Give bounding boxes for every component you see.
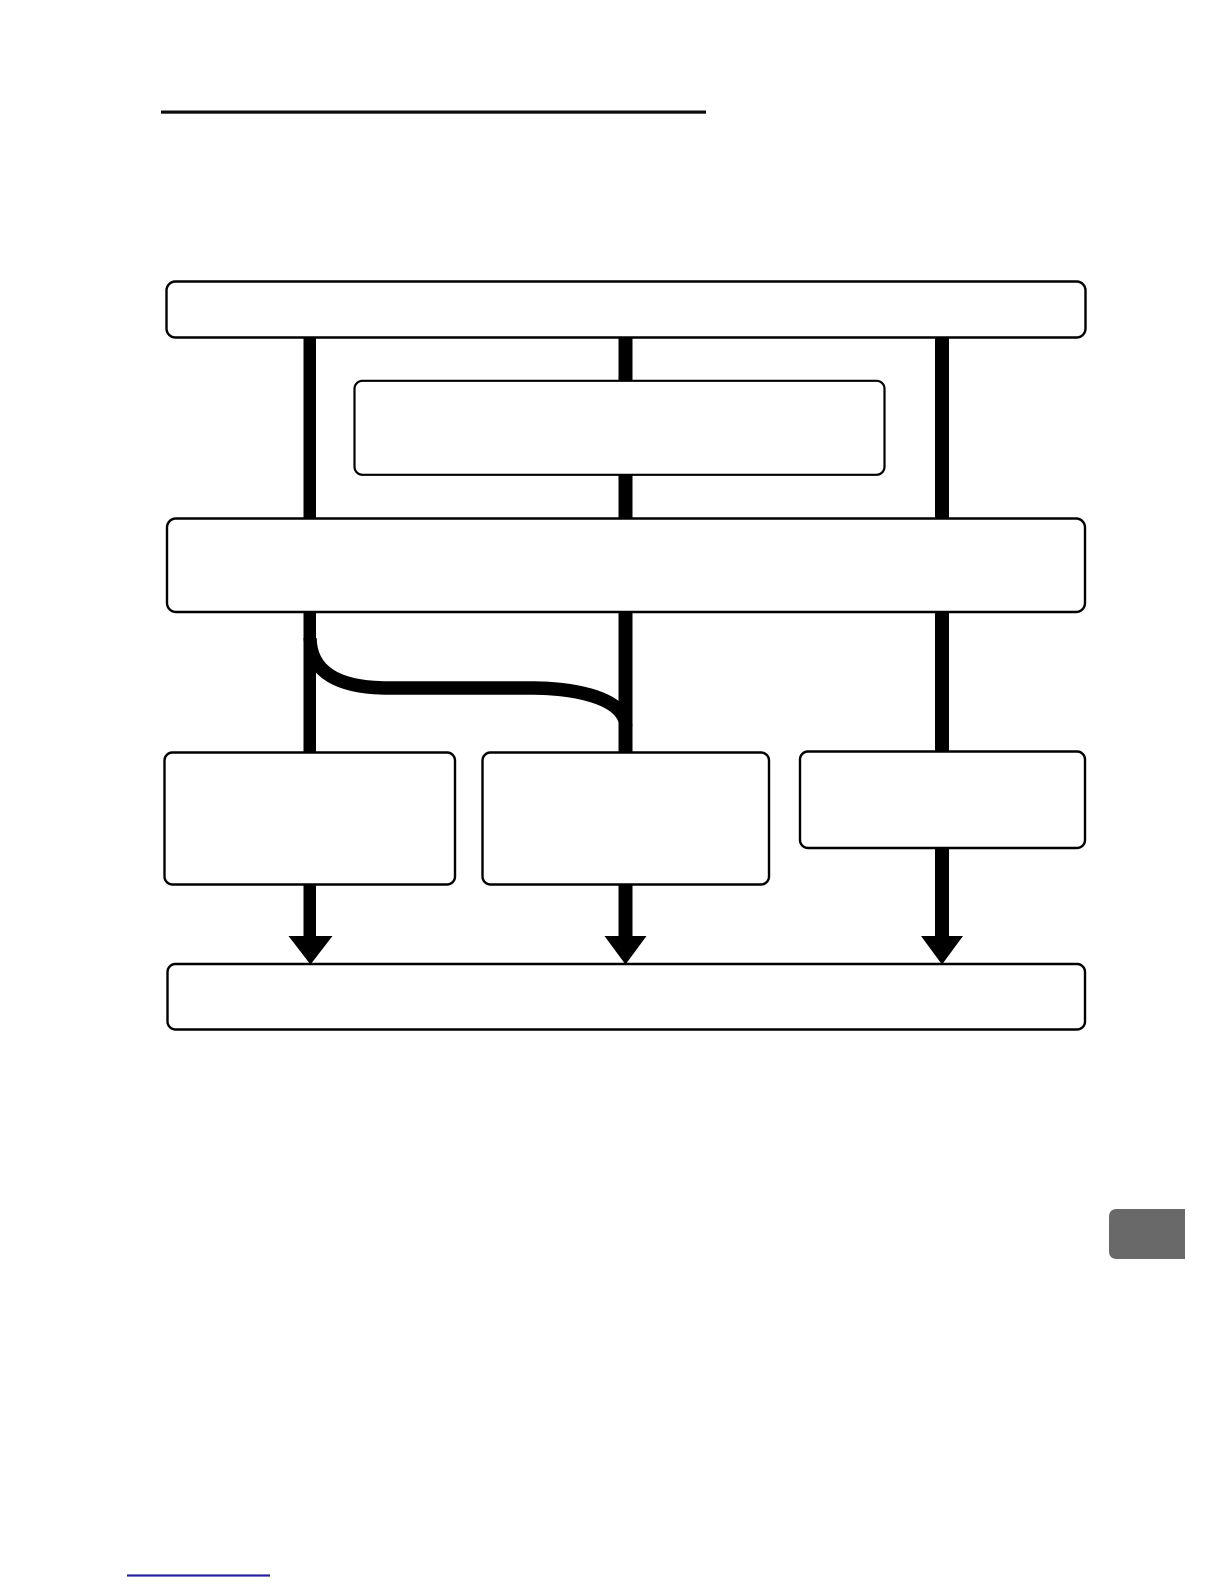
box row1 inner (nested box) xyxy=(355,381,885,475)
wire: right vertical shaft xyxy=(935,337,949,940)
box row3 right xyxy=(800,752,1085,849)
box row3 left xyxy=(165,753,456,885)
box row3 middle xyxy=(483,753,770,885)
box row1 (top wide box) xyxy=(167,282,1086,338)
title underline xyxy=(161,111,706,114)
arrowhead right xyxy=(921,936,963,965)
wire: s-curve branch from left shaft to middle shaft xyxy=(310,638,626,726)
footer link underline (blue) xyxy=(127,1574,270,1576)
arrowhead middle xyxy=(605,936,647,965)
wire: left vertical shaft xyxy=(304,337,317,940)
arrowhead left xyxy=(289,936,333,965)
page tab (gray) xyxy=(1109,1209,1185,1259)
box row2 (middle wide band) xyxy=(167,519,1085,613)
wire: middle vertical shaft xyxy=(619,337,633,940)
box row4 (bottom wide band) xyxy=(168,964,1086,1030)
